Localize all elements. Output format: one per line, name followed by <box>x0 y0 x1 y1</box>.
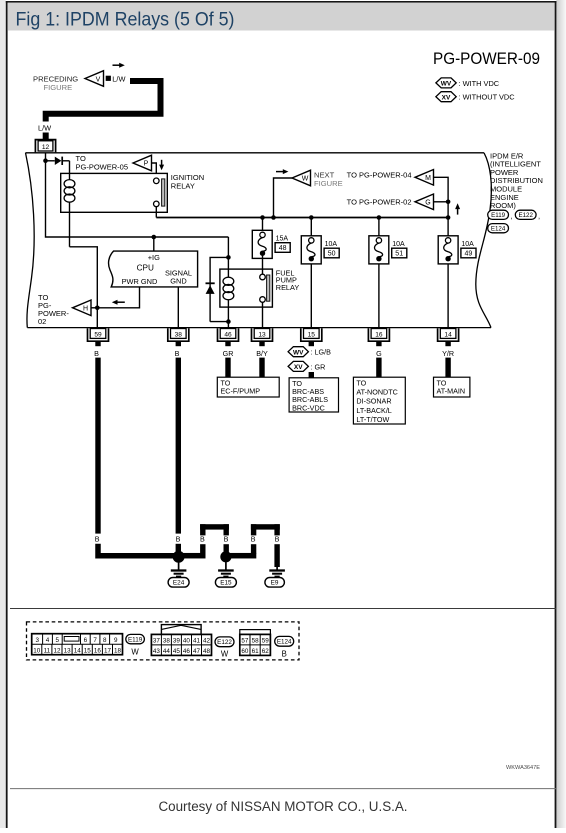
svg-text:48: 48 <box>203 648 211 655</box>
svg-text:4: 4 <box>46 637 50 644</box>
fuel pump relay contact <box>260 256 270 328</box>
connector grid E124 <box>240 634 271 655</box>
svg-text:L/W: L/W <box>38 124 51 133</box>
label box TO AT-MAIN <box>434 377 470 397</box>
node junction E24 <box>173 551 185 563</box>
svg-text:W: W <box>131 647 139 656</box>
svg-text:NEXT: NEXT <box>314 170 335 179</box>
svg-text:G: G <box>376 349 382 358</box>
svg-text:B: B <box>94 349 99 358</box>
node bus junction fuse 50 <box>309 215 314 220</box>
svg-text:W: W <box>221 650 229 659</box>
wire: junction to triangle H <box>91 307 97 309</box>
svg-text:42: 42 <box>203 638 211 645</box>
node junction at connector 12 <box>43 158 48 163</box>
svg-text:E24: E24 <box>173 580 185 587</box>
svg-text:48: 48 <box>279 245 287 252</box>
svg-text:61: 61 <box>252 648 260 655</box>
node bus junction next-figure branch <box>271 215 276 220</box>
label box TO EC-F/PUMP <box>217 377 279 397</box>
svg-text:RELAY: RELAY <box>171 181 195 190</box>
svg-text:12: 12 <box>53 647 61 654</box>
label IGNITION RELAY <box>171 173 204 191</box>
svg-text:: LG/B: : LG/B <box>311 348 332 357</box>
node bus junction fuse 48 <box>260 215 265 220</box>
fuel pump relay K2 box <box>220 269 273 307</box>
svg-text:44: 44 <box>163 648 171 655</box>
connector grid E119 <box>32 634 123 655</box>
svg-text:B: B <box>282 650 287 659</box>
svg-text:E122: E122 <box>518 212 533 219</box>
wire: connector 12 into module <box>45 153 47 161</box>
wire B from 38 down <box>176 358 181 534</box>
connector 59 <box>88 328 109 346</box>
svg-text:B: B <box>251 535 256 544</box>
wire LG/B stub to BRC box <box>309 372 314 378</box>
svg-text:H: H <box>83 306 88 313</box>
fuel pump relay coil <box>223 257 234 321</box>
node junction coil/diode bottom <box>226 319 231 324</box>
svg-text:GR: GR <box>223 349 234 358</box>
page-ref triangle V <box>85 71 111 87</box>
svg-text:14: 14 <box>444 332 452 339</box>
wire B from 59 down <box>95 358 100 534</box>
svg-text:TO: TO <box>356 378 366 387</box>
connector grid E122 keying roof <box>161 625 201 635</box>
connector 46 <box>218 328 239 346</box>
wire GR stub to EC-F/PUMP box <box>225 358 230 378</box>
connector 16 <box>368 328 389 346</box>
svg-text:,: , <box>538 212 540 221</box>
wire: CPU SIGNAL GND to connector 38 <box>177 287 179 328</box>
svg-text:GND: GND <box>170 277 186 286</box>
ground E15 <box>215 557 236 587</box>
svg-text:B: B <box>95 535 100 544</box>
connector 14 <box>438 328 459 346</box>
wire: ignition coil return to ground rail <box>70 247 98 328</box>
svg-text:TO PG-POWER-04: TO PG-POWER-04 <box>347 170 412 179</box>
connector 13 <box>252 328 273 346</box>
svg-text:43: 43 <box>153 648 161 655</box>
svg-text:62: 62 <box>262 648 270 655</box>
diode D1 (ignition coil feed) <box>46 157 70 165</box>
svg-text:10A: 10A <box>461 241 474 248</box>
label 15A / 48 <box>275 235 290 252</box>
fuse F4 10A <box>438 218 458 264</box>
svg-text:3: 3 <box>35 637 39 644</box>
svg-text:15: 15 <box>308 332 316 339</box>
svg-text:38: 38 <box>163 638 171 645</box>
svg-text:LT-T/TOW: LT-T/TOW <box>356 415 389 424</box>
svg-text:Courtesy of NISSAN MOTOR CO.,: Courtesy of NISSAN MOTOR CO., U.S.A. <box>158 799 407 814</box>
wire: ground rail E15 to bridge 2 <box>226 553 256 559</box>
svg-text:E9: E9 <box>271 580 279 587</box>
svg-text:PG-POWER-05: PG-POWER-05 <box>76 162 129 171</box>
svg-text:14: 14 <box>74 647 82 654</box>
wire: 59 leg to ground rail corner <box>98 544 179 556</box>
connector badge E122 (bottom) <box>215 637 234 659</box>
svg-text:9: 9 <box>114 637 118 644</box>
fuse F2 10A <box>301 218 321 264</box>
connector 12 (module top) <box>35 140 55 153</box>
IPDM E/R module outline <box>26 153 492 328</box>
svg-text:: WITHOUT VDC: : WITHOUT VDC <box>459 93 516 102</box>
wire: branch to bus <box>447 202 449 218</box>
label FUEL PUMP RELAY <box>276 268 300 292</box>
wire: ignition relay contact to bus <box>155 207 157 218</box>
svg-text:FIGURE: FIGURE <box>44 83 73 92</box>
connector 38 <box>168 328 189 346</box>
svg-text:,: , <box>511 212 513 221</box>
svg-text:39: 39 <box>173 638 181 645</box>
svg-text:50: 50 <box>328 251 336 258</box>
svg-text:15: 15 <box>84 647 92 654</box>
svg-text:Fig 1: IPDM Relays (5 Of 5): Fig 1: IPDM Relays (5 Of 5) <box>16 9 235 31</box>
fuse F3 10A <box>369 218 389 264</box>
ground E24 <box>168 557 189 587</box>
label TO PG-POWER-05 <box>76 154 129 172</box>
connector badge E124 <box>488 224 509 233</box>
wire: G to branch <box>434 201 449 203</box>
connector badge E124 (bottom) <box>275 636 294 658</box>
wire: to connector 46 <box>227 322 229 328</box>
arrow right above L/W <box>113 63 125 68</box>
footer rule <box>10 788 556 790</box>
wire: +IG feed from node 12 junction <box>46 161 229 237</box>
svg-text:PWR GND: PWR GND <box>122 277 158 286</box>
svg-text:XV: XV <box>442 94 451 101</box>
svg-text:13: 13 <box>64 647 72 654</box>
svg-text:G: G <box>425 200 430 207</box>
svg-text:45: 45 <box>173 648 181 655</box>
svg-text:B: B <box>200 535 205 544</box>
svg-text:17: 17 <box>104 647 112 654</box>
node junction coil/diode top <box>226 255 231 260</box>
page-ref triangle W <box>292 170 311 186</box>
svg-text:37: 37 <box>153 638 161 645</box>
node junction +IG to CPU <box>152 235 157 240</box>
label TO PG-POWER-02 (left) <box>38 293 69 326</box>
IPDM E/R module name <box>490 151 543 210</box>
svg-text:10A: 10A <box>325 241 338 248</box>
svg-text:EC-F/PUMP: EC-F/PUMP <box>221 387 261 396</box>
svg-text:E15: E15 <box>220 580 232 587</box>
wire: ground rail E24 to bridge 1 <box>179 553 206 559</box>
wire: bus to next-figure triangle W <box>274 178 293 218</box>
hexagon XV wire tag <box>288 361 308 371</box>
svg-text:E124: E124 <box>277 639 292 646</box>
svg-text:ROOM): ROOM) <box>490 201 516 210</box>
wire Y/R stub to AT-MAIN box <box>445 358 450 378</box>
CPU box <box>109 251 198 287</box>
svg-text:18: 18 <box>114 647 122 654</box>
page-ref triangle M <box>415 170 434 186</box>
svg-text:40: 40 <box>183 638 191 645</box>
svg-text:PG-POWER-09: PG-POWER-09 <box>433 49 540 68</box>
svg-text:TO PG-POWER-02: TO PG-POWER-02 <box>347 197 412 206</box>
ground jumper bridge 2 <box>251 524 280 567</box>
svg-text:B: B <box>275 535 280 544</box>
label box TO BRC <box>289 378 338 413</box>
preceding figure label <box>33 74 78 92</box>
svg-text:47: 47 <box>193 648 201 655</box>
legend hexagon WV <box>436 78 456 88</box>
svg-text:M: M <box>425 175 431 182</box>
wire: 38 leg into E24 node <box>176 544 181 552</box>
wire: fuse 51 to connector 16 <box>378 264 380 328</box>
svg-text:AT-NONDTC: AT-NONDTC <box>356 388 397 397</box>
wire: fuse 50 to connector 15 <box>310 264 312 328</box>
wire: M to branch <box>434 177 449 202</box>
svg-text:57: 57 <box>241 638 249 645</box>
connector grid E122 <box>151 634 211 655</box>
svg-text:B: B <box>176 535 181 544</box>
arrow down into ignition relay <box>159 160 164 171</box>
svg-text:P: P <box>144 161 149 168</box>
bus wire <box>156 217 448 219</box>
label 10A / 50 <box>324 241 339 258</box>
svg-text:LT-BACK/L: LT-BACK/L <box>356 406 391 415</box>
label box TO AT/DI/LT <box>353 377 405 424</box>
svg-text:WV: WV <box>441 81 452 88</box>
arrow left on PWR GND wire <box>112 300 125 305</box>
wire: fuse 49 to connector 14 <box>447 264 449 328</box>
svg-text:E122: E122 <box>217 639 232 646</box>
svg-text:10A: 10A <box>392 241 405 248</box>
svg-text:58: 58 <box>252 638 260 645</box>
legend hexagon XV <box>436 92 456 102</box>
svg-text:7: 7 <box>93 637 97 644</box>
svg-text:41: 41 <box>193 638 201 645</box>
svg-text:XV: XV <box>294 364 303 371</box>
node junction E15 <box>220 551 231 562</box>
thick wire loop from preceding figure <box>46 81 161 141</box>
svg-text:WKWA3647E: WKWA3647E <box>506 765 540 771</box>
svg-text:DI-SONAR: DI-SONAR <box>356 397 391 406</box>
node junction ground rail / H branch <box>95 306 100 311</box>
svg-text:46: 46 <box>224 332 232 339</box>
svg-text:W: W <box>302 176 309 183</box>
node bus junction fuse 51 <box>377 215 382 220</box>
connector badge E119 <box>488 210 513 220</box>
svg-text:WV: WV <box>293 349 304 356</box>
svg-text:38: 38 <box>175 332 183 339</box>
wire: junction down to CPU +IG pin <box>153 237 155 251</box>
hexagon WV wire tag <box>288 347 308 357</box>
svg-text:59: 59 <box>262 638 270 645</box>
svg-text:L/W: L/W <box>112 74 125 83</box>
connector badge E119 (bottom) <box>126 634 145 656</box>
svg-text:10: 10 <box>33 647 41 654</box>
svg-text:RELAY: RELAY <box>276 283 300 292</box>
arrow up beside M/G branch <box>455 203 460 214</box>
svg-text:: WITH VDC: : WITH VDC <box>459 79 500 88</box>
connector 15 <box>301 328 322 346</box>
svg-text:11: 11 <box>44 647 51 654</box>
svg-text:5: 5 <box>56 637 60 644</box>
label 10A / 51 <box>392 241 407 258</box>
svg-text:V: V <box>96 76 101 83</box>
svg-text:CPU: CPU <box>137 263 154 272</box>
svg-text:B/Y: B/Y <box>256 349 268 358</box>
svg-text:: GR: : GR <box>311 362 326 371</box>
connector badge E122 <box>515 210 540 220</box>
svg-text:E124: E124 <box>491 226 506 233</box>
wire: +IG line down to fuel pump relay coil <box>227 237 229 257</box>
ground jumper bridge 1 <box>200 524 229 553</box>
svg-text:B: B <box>224 535 229 544</box>
svg-text:59: 59 <box>94 332 102 339</box>
svg-text:Y/R: Y/R <box>442 349 454 358</box>
connector grid E124 top strip <box>240 630 271 635</box>
svg-text:6: 6 <box>84 637 88 644</box>
wire B/Y stub to EC-F/PUMP box <box>259 358 264 378</box>
wire G stub to AT box <box>376 358 381 378</box>
label 10A / 49 <box>461 241 476 258</box>
svg-text:E119: E119 <box>128 636 143 643</box>
svg-text:BRC-VDC: BRC-VDC <box>292 403 325 412</box>
node junction G branch <box>446 200 451 205</box>
fuse F1 15A <box>252 218 272 259</box>
ground E9 <box>265 565 285 587</box>
svg-text:51: 51 <box>395 251 403 258</box>
svg-text:02: 02 <box>38 317 46 326</box>
svg-text:60: 60 <box>241 648 249 655</box>
svg-text:12: 12 <box>42 144 50 151</box>
svg-text:15A: 15A <box>276 235 289 242</box>
svg-text:13: 13 <box>258 332 266 339</box>
diode D2 (parallel with fuel pump relay coil) <box>206 257 229 321</box>
ignition relay contact <box>154 178 165 207</box>
svg-text:B: B <box>175 349 180 358</box>
svg-text:FIGURE: FIGURE <box>314 179 343 188</box>
ignition relay U1 box <box>61 173 168 212</box>
ignition relay coil <box>64 161 75 247</box>
svg-text:16: 16 <box>375 332 383 339</box>
dashed connector-view box <box>27 622 300 660</box>
svg-text:E119: E119 <box>491 212 506 219</box>
svg-text:49: 49 <box>465 251 473 258</box>
wire: CPU PWR GND return <box>97 287 139 308</box>
svg-text:+IG: +IG <box>148 253 160 262</box>
node bus junction M/G branch <box>446 215 451 220</box>
page-ref triangle H <box>73 300 92 316</box>
arrow right to next figure <box>276 169 288 174</box>
separator line <box>10 608 556 610</box>
page-ref triangle P <box>133 155 152 171</box>
svg-text:46: 46 <box>183 648 191 655</box>
label NEXT FIGURE <box>314 170 343 188</box>
page-ref triangle G <box>415 194 434 210</box>
svg-text:AT-MAIN: AT-MAIN <box>437 387 466 396</box>
svg-text:16: 16 <box>94 647 102 654</box>
svg-text:8: 8 <box>103 637 107 644</box>
wire: P triangle to ignition relay contact <box>152 163 157 178</box>
